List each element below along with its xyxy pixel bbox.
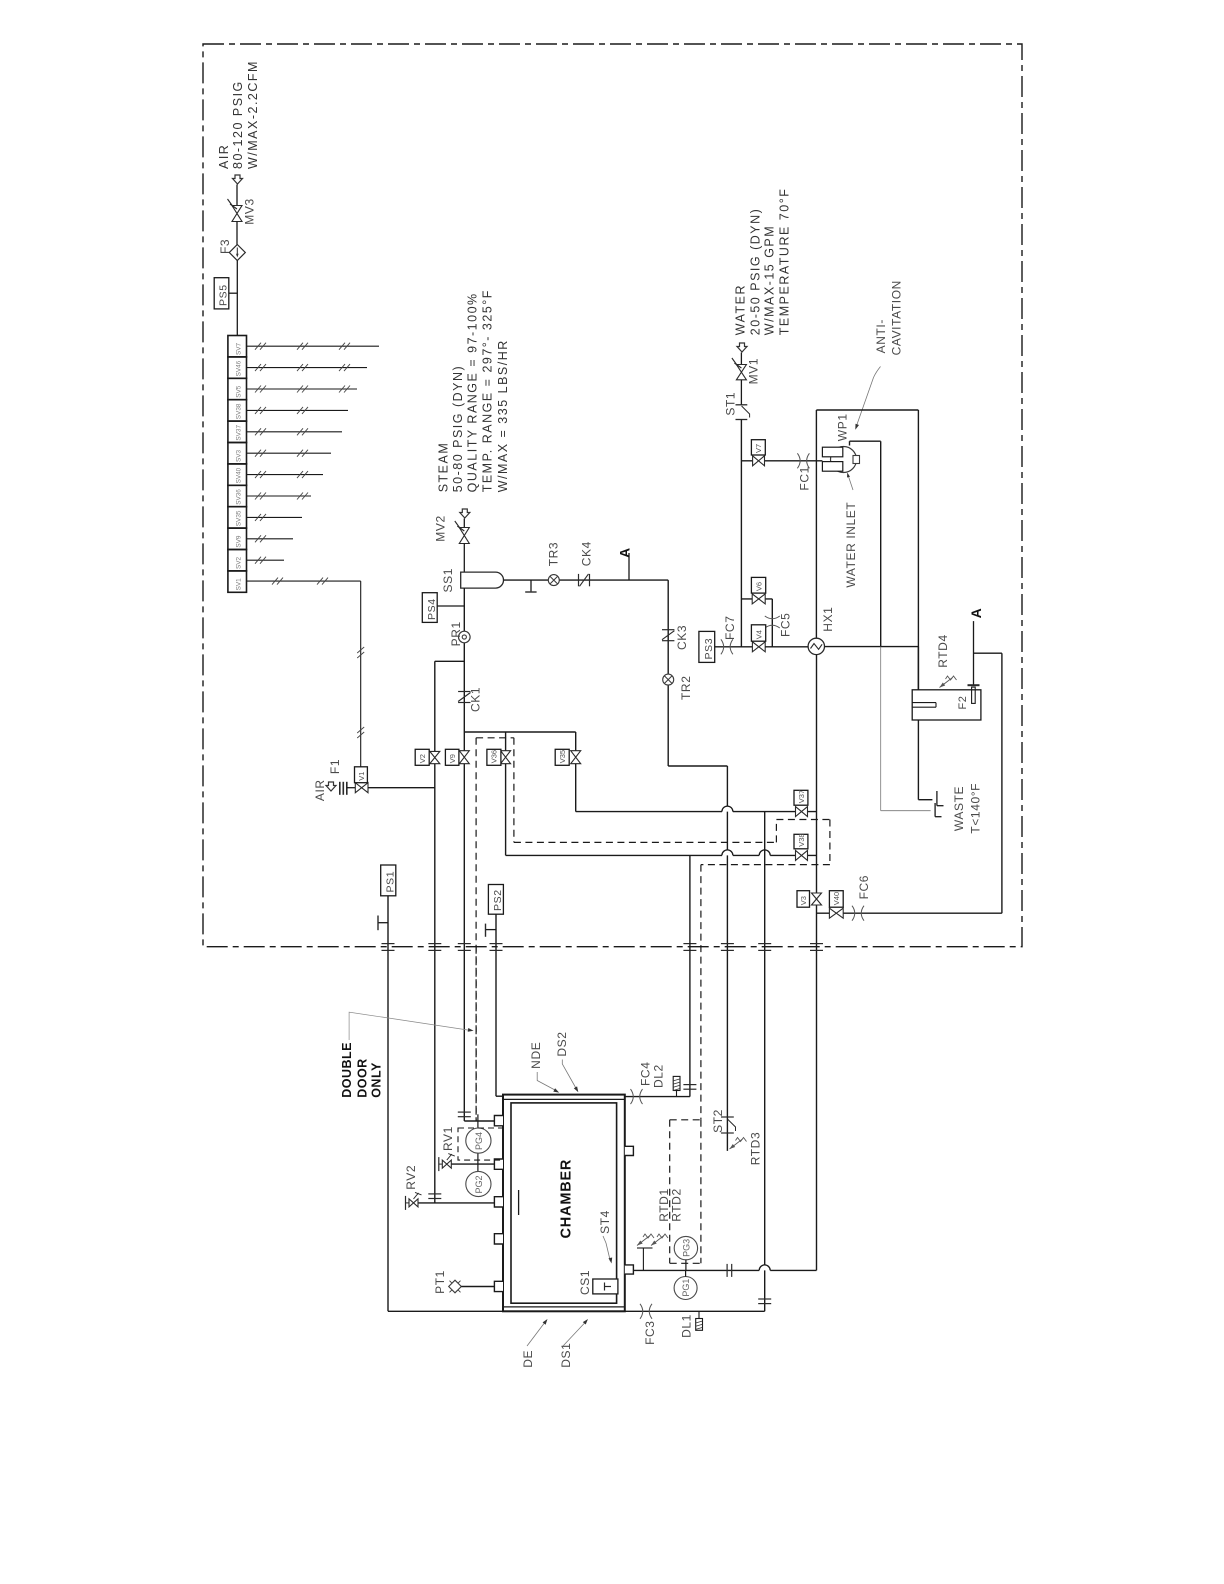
- svg-text:W/MAX-15 GPM: W/MAX-15 GPM: [763, 225, 777, 335]
- gauge PG3: [674, 1236, 697, 1259]
- svg-text:PS4: PS4: [426, 598, 438, 620]
- svg-text:RTD4: RTD4: [936, 634, 950, 668]
- svg-text:V6: V6: [754, 582, 763, 591]
- svg-text:PS5: PS5: [218, 284, 230, 306]
- svg-text:SS1: SS1: [441, 568, 455, 592]
- wire water inlet to MV1: [740, 353, 742, 365]
- anti-cavitation loop pipe: [816, 409, 918, 411]
- node A tap on condensate pipe: [628, 553, 630, 580]
- svg-text:MV3: MV3: [242, 198, 256, 224]
- svg-text:F2: F2: [957, 695, 969, 709]
- condensate pipe from SS1: [504, 579, 669, 581]
- steam pipe elbow into chamber port A: [464, 1120, 494, 1122]
- svg-text:A: A: [617, 547, 633, 558]
- pipe V35 to V37 manifold: [575, 764, 577, 812]
- drip leg with cap: [530, 580, 532, 591]
- svg-text:SV37: SV37: [236, 425, 243, 441]
- svg-text:FC6: FC6: [857, 875, 871, 899]
- svg-text:PT1: PT1: [433, 1270, 447, 1294]
- svg-text:V35: V35: [558, 750, 567, 763]
- PS2 pipe to jacket: [495, 914, 497, 1096]
- svg-text:CAVITATION: CAVITATION: [889, 280, 903, 355]
- svg-text:MV2: MV2: [434, 515, 448, 541]
- svg-text:SV35: SV35: [236, 510, 243, 526]
- air detector DL2: [676, 1091, 678, 1097]
- waste riser pipe: [764, 812, 766, 1312]
- pump discharge pipe: [849, 441, 851, 445]
- wire F1 to V1: [347, 787, 356, 789]
- svg-text:A: A: [968, 608, 984, 619]
- filter F3: [229, 245, 245, 261]
- svg-text:FC5: FC5: [778, 613, 792, 637]
- svg-text:ANTI-: ANTI-: [874, 319, 888, 353]
- svg-text:RTD2: RTD2: [669, 1188, 683, 1222]
- svg-text:F3: F3: [218, 239, 232, 254]
- jacket gauge pipe: [477, 1114, 479, 1171]
- steam inlet flow arrow: [460, 509, 470, 518]
- svg-text:TR2: TR2: [679, 676, 693, 700]
- valve V35: [571, 751, 581, 764]
- svg-text:V3: V3: [799, 896, 808, 905]
- svg-text:PG1: PG1: [681, 1279, 691, 1297]
- svg-text:SV7: SV7: [236, 342, 243, 355]
- svg-text:FC7: FC7: [723, 616, 737, 640]
- valve MV1: [736, 365, 746, 380]
- pressure transducer PT1: [449, 1280, 462, 1293]
- flow constrictor FC5: [765, 616, 780, 619]
- dashed gauge box (double door) PG3: [670, 1119, 701, 1121]
- valve V1: [355, 783, 368, 793]
- condensate pipe jog: [668, 765, 727, 767]
- wire MV1 to ST1: [740, 380, 742, 405]
- svg-text:DL1: DL1: [680, 1314, 694, 1338]
- union at boundary on drain riser: [810, 943, 823, 945]
- union at boundary on FC4 pipe: [683, 943, 696, 945]
- svg-text:HX1: HX1: [821, 607, 835, 632]
- svg-text:CK3: CK3: [675, 625, 689, 650]
- chamber ports (right wall): [625, 1146, 634, 1155]
- strainer ST1: [736, 404, 748, 406]
- cooling water pipe HX1 to drain tee: [825, 646, 919, 648]
- svg-text:V1: V1: [357, 772, 366, 781]
- capped tee at PS1: [378, 922, 388, 924]
- svg-text:SV3: SV3: [236, 449, 243, 462]
- sensor RTD3: [730, 1139, 743, 1149]
- wire steam inlet to MV2: [463, 519, 465, 528]
- svg-text:DE: DE: [521, 1350, 535, 1368]
- svg-text:WP1: WP1: [835, 413, 849, 441]
- svg-text:V4: V4: [754, 630, 763, 639]
- gauge PG1: [674, 1277, 697, 1300]
- waste header pipe: [817, 912, 1002, 914]
- valve V7: [753, 456, 765, 466]
- svg-text:STEAM: STEAM: [437, 442, 451, 493]
- water pipe V4 to HX1: [765, 646, 808, 648]
- gauge PG4: [466, 1128, 491, 1153]
- air seal inlet flow arrow: [326, 782, 336, 791]
- valve V9: [459, 751, 469, 764]
- valve V4: [752, 642, 765, 652]
- svg-text:DOOR: DOOR: [356, 1058, 370, 1098]
- signal wires from solenoid valves: [247, 345, 380, 347]
- water inlet flow arrow: [737, 343, 747, 352]
- union on sensor pipe: [726, 1264, 728, 1277]
- check valve CK4: [578, 574, 580, 586]
- svg-text:V7: V7: [754, 444, 763, 453]
- svg-text:FC3: FC3: [643, 1320, 657, 1344]
- svg-text:W/MAX-2.2CFM: W/MAX-2.2CFM: [246, 60, 260, 169]
- svg-text:PG4: PG4: [474, 1132, 484, 1150]
- waste pipe from loop to F2: [917, 647, 919, 690]
- svg-text:V9: V9: [448, 754, 457, 763]
- svg-text:SV36: SV36: [236, 489, 243, 505]
- svg-text:ST4: ST4: [598, 1210, 612, 1234]
- valve V38: [796, 850, 808, 860]
- svg-text:RV1: RV1: [441, 1126, 455, 1151]
- svg-text:SV9: SV9: [236, 535, 243, 548]
- chamber drain pipe: [388, 1310, 765, 1312]
- water pump WP1: [831, 447, 857, 473]
- svg-text:SV46: SV46: [236, 360, 243, 376]
- svg-text:WATER INLET: WATER INLET: [844, 502, 858, 588]
- wire F3 to manifold: [236, 261, 238, 336]
- svg-text:PS2: PS2: [492, 889, 504, 911]
- union at boundary on V2 pipe: [428, 943, 441, 945]
- union on vent pipe: [683, 1084, 696, 1086]
- svg-text:TEMPERATURE 70°F: TEMPERATURE 70°F: [777, 188, 791, 336]
- svg-text:DS1: DS1: [559, 1343, 573, 1368]
- check valve CK1: [458, 691, 470, 693]
- svg-text:20-50 PSIG (DYN): 20-50 PSIG (DYN): [748, 208, 762, 336]
- pressure regulator PR1: [459, 631, 471, 643]
- svg-text:FC1: FC1: [797, 466, 811, 490]
- svg-text:V37: V37: [797, 790, 806, 803]
- svg-text:AIR: AIR: [217, 144, 231, 169]
- flow constrictor FC1: [797, 453, 800, 468]
- valve V6: [752, 594, 765, 604]
- svg-text:CHAMBER: CHAMBER: [559, 1159, 575, 1239]
- relief valve RV2 pipe: [418, 1202, 495, 1204]
- chamber shell: [503, 1095, 625, 1312]
- steam trap TR3: [548, 575, 559, 586]
- steam branch to V35: [575, 732, 577, 751]
- svg-text:T<140°F: T<140°F: [968, 783, 982, 834]
- valve V40: [829, 908, 843, 918]
- svg-text:QUALITY RANGE = 97-100%: QUALITY RANGE = 97-100%: [466, 292, 480, 492]
- valve V3: [812, 893, 822, 905]
- union at boundary on condensate pipe: [721, 943, 734, 945]
- dashed pipe (double door) to PG4: [475, 947, 477, 1121]
- wire MV2 to SS1: [463, 544, 465, 573]
- svg-text:SV2: SV2: [236, 556, 243, 569]
- pressure switch PS1: [381, 865, 396, 896]
- svg-text:CK4: CK4: [580, 541, 594, 566]
- steam branch to V36: [505, 732, 507, 751]
- svg-text:TR3: TR3: [546, 542, 560, 566]
- flow constrictor FC6: [852, 906, 855, 921]
- union at boundary on steam pipe: [458, 943, 471, 945]
- svg-text:V40: V40: [832, 892, 841, 905]
- filter F1: [339, 782, 341, 795]
- water suction pipe: [741, 460, 822, 462]
- relief valve RV2: [409, 1199, 418, 1207]
- condensate pipe elbow down: [667, 580, 669, 766]
- water branch to V6: [741, 598, 772, 600]
- svg-text:CK1: CK1: [469, 687, 483, 712]
- valve V2: [430, 751, 440, 763]
- union at boundary on waste riser: [758, 943, 771, 945]
- steam trap ST2: [721, 1116, 734, 1118]
- pressure switch PS4: [422, 593, 437, 623]
- flow constrictor FC3: [640, 1304, 643, 1319]
- vent pipe FC4: [625, 1096, 690, 1098]
- valve V37: [796, 807, 808, 817]
- flow constrictor FC4: [631, 1089, 634, 1104]
- svg-text:ST2: ST2: [711, 1109, 725, 1133]
- wire MV3 to F3: [236, 222, 238, 245]
- svg-text:DL2: DL2: [652, 1064, 666, 1088]
- union on steam pipe at jacket: [458, 1111, 471, 1113]
- filter element in F2: [968, 684, 980, 686]
- svg-text:SV40: SV40: [236, 467, 243, 483]
- solenoid valve manifold SV1-SV40: [228, 336, 247, 357]
- svg-text:RV2: RV2: [404, 1165, 418, 1190]
- PS1 pipe to chamber drain: [387, 896, 389, 1312]
- union at boundary on PS2 pipe: [490, 943, 503, 945]
- dashed pipe (double door) around V36: [476, 738, 514, 739]
- svg-text:50-80 PSIG (DYN): 50-80 PSIG (DYN): [451, 365, 465, 493]
- svg-text:F1: F1: [328, 759, 342, 774]
- door switch CS1: [593, 1279, 618, 1294]
- baffle inside chamber: [518, 1190, 520, 1215]
- gauge PG2: [466, 1171, 491, 1196]
- svg-text:PG2: PG2: [474, 1175, 484, 1193]
- svg-text:DOUBLE: DOUBLE: [340, 1042, 354, 1098]
- waste pipe F2 to funnel: [917, 720, 919, 800]
- valve MV2: [459, 528, 469, 544]
- svg-text:NDE: NDE: [529, 1042, 543, 1069]
- union on waste riser: [758, 1298, 771, 1300]
- equipment boundary (dash-dot border): [203, 44, 1022, 947]
- steam trap TR2: [663, 674, 674, 685]
- sensors RTD1 RTD2: [637, 1236, 650, 1246]
- water pipe down to V7 tee: [740, 420, 742, 647]
- dashed box (double door) at PG4: [458, 1128, 503, 1160]
- thin overflow pipe to funnel: [880, 647, 882, 811]
- steam branch pipe to V2: [435, 660, 465, 662]
- dashed pipe (double door) to V38: [514, 841, 777, 843]
- air inlet flow arrow: [233, 175, 243, 184]
- svg-text:WASTE: WASTE: [952, 786, 966, 831]
- sensor pipe from port ST4: [633, 1269, 759, 1271]
- union at boundary on PS1 pipe: [382, 943, 395, 945]
- svg-text:80-120 PSIG: 80-120 PSIG: [231, 80, 245, 169]
- svg-text:FC4: FC4: [639, 1062, 653, 1086]
- svg-text:MV1: MV1: [747, 358, 761, 384]
- pressure switch PS2: [488, 885, 503, 915]
- relief valve RV1: [442, 1160, 451, 1168]
- chamber ports (left wall): [494, 1116, 503, 1126]
- PT1 pipe to port: [461, 1286, 494, 1288]
- steam header pipe: [464, 731, 575, 733]
- valve V36: [501, 751, 511, 764]
- svg-text:AIR: AIR: [313, 779, 327, 801]
- pressure switch PS3: [699, 631, 715, 662]
- steam separator SS1: [461, 572, 504, 588]
- svg-text:PG3: PG3: [681, 1239, 691, 1257]
- signal wire SV1 to V1: [247, 580, 361, 582]
- svg-text:W/MAX = 335 LBS/HR: W/MAX = 335 LBS/HR: [496, 339, 510, 492]
- air detector DL1: [698, 1311, 700, 1318]
- svg-text:CS1: CS1: [578, 1270, 592, 1295]
- svg-text:ST1: ST1: [723, 392, 737, 416]
- svg-text:DS2: DS2: [555, 1031, 569, 1056]
- main steam pipe: [463, 588, 465, 1121]
- drain manifold riser: [816, 655, 818, 1271]
- sensor RTD4: [940, 678, 953, 688]
- svg-text:V36: V36: [490, 750, 499, 763]
- svg-text:TEMP. RANGE = 297°- 325°F: TEMP. RANGE = 297°- 325°F: [480, 289, 494, 492]
- check valve CK3: [662, 629, 674, 631]
- svg-text:SV38: SV38: [236, 403, 243, 419]
- svg-text:WATER: WATER: [734, 284, 748, 335]
- svg-text:SV1: SV1: [236, 578, 243, 591]
- pressure switch PS5: [214, 278, 229, 309]
- svg-text:PR1: PR1: [449, 621, 463, 646]
- svg-text:PS3: PS3: [703, 638, 715, 660]
- wire air inlet to MV3: [236, 185, 238, 206]
- capped tee at PS2: [486, 929, 497, 931]
- tank F2: [912, 690, 981, 720]
- svg-text:V2: V2: [418, 754, 427, 763]
- svg-text:SV5: SV5: [236, 385, 243, 398]
- air seal pipe to V2 branch: [368, 787, 435, 789]
- flow constrictor FC7: [721, 639, 724, 654]
- waste funnel: [936, 791, 938, 806]
- union on V2 pipe: [428, 1193, 441, 1195]
- svg-text:V38: V38: [797, 833, 806, 846]
- svg-text:PS1: PS1: [384, 871, 396, 893]
- pipe V36 to V38 manifold: [505, 764, 507, 856]
- svg-text:RTD3: RTD3: [749, 1132, 763, 1166]
- svg-text:ONLY: ONLY: [370, 1062, 384, 1098]
- valve MV3: [232, 206, 242, 222]
- heat exchanger HX1: [808, 638, 824, 654]
